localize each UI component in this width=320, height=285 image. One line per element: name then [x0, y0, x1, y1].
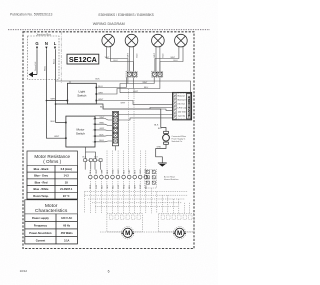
junction box J1	[28, 36, 60, 80]
wire BLK bus branch to transformer	[161, 109, 173, 110]
wire motor switch corner to connector	[95, 115, 112, 117]
wire motor switch BLK	[95, 135, 112, 138]
lamp connector CN2	[152, 71, 163, 77]
model label SE12CA	[67, 54, 99, 64]
transformer pins	[174, 93, 177, 96]
motor M2 housing	[159, 214, 195, 232]
wire light switch GRY to BLU bus	[97, 77, 160, 94]
chassis boundary dash-dot line	[60, 32, 62, 84]
motor M1	[122, 227, 134, 239]
wire light switch top feed	[69, 81, 71, 83]
wire N to light switch WHT	[46, 100, 67, 102]
wire motor bus	[100, 231, 194, 233]
wire BLK bus step to transformer pin5	[150, 108, 173, 110]
motor M2	[173, 227, 185, 239]
wire strip to transformer pin8	[118, 118, 173, 120]
light switch pins	[67, 100, 69, 102]
wire lamp DS1 BLU	[111, 47, 134, 72]
lamp DS2	[125, 34, 138, 47]
wire lamp DS2 BLU	[132, 47, 134, 72]
lamp DS1	[102, 34, 115, 47]
ground arrow to chassis	[32, 74, 38, 76]
lamp DS4	[175, 34, 188, 47]
wire light switch WHT to transformer	[97, 101, 173, 105]
wire strip to transformer pin7	[118, 114, 173, 116]
wire motor switch RED	[95, 124, 112, 125]
wire lamp DS3 BLU	[159, 47, 161, 72]
diagram border frame	[23, 32, 194, 249]
harness dashed risers	[89, 170, 91, 175]
wire G green/yellow	[36, 49, 38, 74]
table motor characteristics	[25, 200, 78, 244]
wire motor switch WHT	[95, 119, 112, 121]
wire lamp DS3 WHT	[155, 47, 157, 72]
table motor resistance	[27, 151, 78, 199]
transformer name strip	[187, 93, 191, 119]
node N branch	[46, 100, 48, 102]
node L branch	[55, 103, 57, 105]
wire N white vertical	[45, 49, 47, 100]
wire ignitor to ground	[156, 144, 166, 163]
ground symbol	[158, 162, 167, 164]
wire L black vertical	[55, 49, 57, 122]
wire lamp DS4 WHT	[155, 47, 179, 72]
transformer T1	[173, 93, 192, 120]
harness terminal row CN4	[89, 175, 93, 179]
motor switch left pins	[65, 122, 67, 124]
wire strip tail	[115, 146, 117, 151]
wire motor switch BLU	[95, 140, 112, 143]
connector strip CN3	[112, 112, 118, 146]
wire lamp DS4 BLU	[160, 47, 183, 72]
wire lamp DS2 WHT	[129, 47, 131, 72]
wire WHT lamp bus	[120, 77, 154, 92]
wire BLK top bus	[56, 81, 191, 93]
wire BLK bus to spark ignitor	[56, 104, 167, 131]
motor M1 housing	[107, 214, 142, 232]
burner connector CN5	[145, 170, 157, 189]
wire L to motor switch BLK	[56, 122, 66, 124]
header rule	[8, 29, 210, 31]
scan noise overlay	[0, 0, 1, 1]
wire motor switch GRY	[95, 129, 112, 132]
wire lamp DS1 WHT	[107, 47, 128, 72]
wire neutral to motor switch WHT	[46, 101, 66, 139]
motor switch S2	[66, 116, 95, 147]
harness mesh wires	[85, 190, 189, 192]
light switch S1	[67, 83, 96, 104]
wire left feed column	[84, 191, 86, 213]
inline connector tails	[85, 162, 100, 170]
spark ignitor E1	[164, 131, 169, 133]
lamp DS3	[152, 34, 165, 47]
wire motor switch to inline connectors	[86, 147, 96, 159]
lamp connector CN1	[126, 71, 137, 77]
wire light switch BLU	[97, 77, 126, 87]
motor M2 feed columns	[150, 188, 152, 213]
wire WHT bus to transformer	[120, 92, 173, 94]
